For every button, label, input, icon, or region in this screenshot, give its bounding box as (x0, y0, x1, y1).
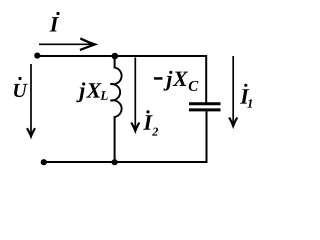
node: top junction of inductor branch (112, 53, 119, 60)
wire: top horizontal (38, 55, 208, 57)
label: I of I2 (143, 115, 152, 129)
label: dot of I2 (146, 110, 149, 113)
arrow: current I2 pointing down (131, 58, 139, 131)
label: U (14, 84, 28, 97)
wire: right branch upper lead to capacitor (205, 55, 207, 103)
label: L subscript of jXL (100, 91, 107, 100)
arrow: voltage U pointing down (27, 64, 35, 136)
label: dot of U (18, 77, 21, 80)
arrow: current I1 pointing down (229, 56, 237, 126)
label: I of I1 (240, 89, 249, 103)
label: 2 subscript of I2 (152, 128, 158, 136)
arrow: current I along top wire (39, 38, 95, 50)
wire: right branch lower lead from capacitor (206, 111, 208, 163)
node: top-left terminal (34, 53, 40, 59)
wire: bottom horizontal (44, 161, 208, 163)
node: bottom-left terminal (41, 159, 47, 165)
capacitor C top plate (189, 102, 221, 105)
label: dot of I1 (244, 84, 247, 87)
node: bottom junction of inductor branch (112, 159, 118, 165)
label: dot of I (56, 12, 59, 15)
label: I (50, 17, 59, 31)
label: jX of -jXC (163, 71, 188, 91)
label: minus sign of -jXC (154, 77, 163, 80)
label: 1 subscript of I1 (247, 99, 252, 107)
label: C subscript of -jXC (189, 81, 199, 91)
capacitor C bottom plate (189, 108, 221, 111)
label: jX of jXL (76, 82, 101, 102)
wire: inductor branch bottom lead (114, 116, 116, 162)
wire: inductor branch top lead (114, 56, 116, 69)
inductor coil jXL (110, 68, 121, 118)
